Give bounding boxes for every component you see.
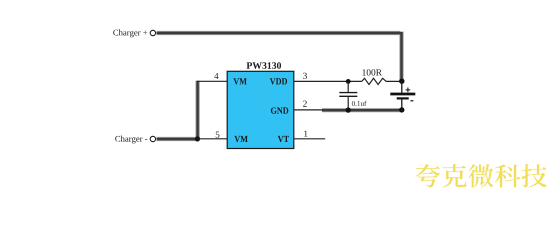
- wire pin2 GND: [294, 109, 348, 111]
- pin label VT: [278, 136, 289, 142]
- terminal Charger-: [150, 136, 155, 141]
- value label 0.1uf: [352, 101, 367, 106]
- watermark char 技: [521, 164, 547, 187]
- wire pin5: [198, 138, 228, 140]
- battery BT1 lead bottom: [401, 99, 403, 109]
- capacitor C1 plate top: [339, 92, 357, 94]
- junction VDD/cap: [346, 79, 351, 84]
- capacitor C1 plate bottom: [339, 95, 357, 97]
- watermark char 微: [468, 164, 493, 187]
- battery BT1 plate long (+): [390, 93, 415, 96]
- junction battery top: [399, 79, 404, 84]
- pin number 5: [216, 132, 220, 138]
- battery plus label: [406, 88, 411, 93]
- pin label GND: [271, 107, 288, 113]
- terminal Charger+: [150, 30, 155, 35]
- wire vertical to pin4 (thick): [196, 81, 200, 139]
- battery BT1 plate short (-): [397, 97, 409, 99]
- pin number 4: [214, 73, 218, 79]
- pin number 2: [303, 101, 307, 107]
- wire pin1 VT stub: [294, 138, 326, 140]
- watermark char 克: [442, 164, 467, 187]
- label PW3130: [247, 62, 281, 69]
- watermark char 夸: [415, 164, 440, 188]
- pin label VDD: [270, 78, 287, 84]
- junction at Charger-: [195, 136, 200, 141]
- capacitor C1 lead bottom: [347, 97, 349, 110]
- battery BT1 lead top: [401, 81, 403, 93]
- node Charger- label: [115, 136, 147, 144]
- wire pin3 VDD: [294, 80, 362, 82]
- capacitor C1 lead top: [347, 81, 349, 92]
- node Charger+ label: [113, 29, 147, 37]
- IC U1 PW3130 body: [227, 71, 294, 148]
- wire Charger- to junction (thick): [157, 137, 198, 141]
- junction battery bottom: [399, 107, 404, 112]
- watermark char 科: [495, 164, 521, 187]
- pin label VM top: [233, 78, 246, 84]
- pin number 3: [303, 73, 307, 79]
- battery minus label: [410, 100, 413, 102]
- value label 100R: [362, 69, 382, 75]
- pin number 1: [304, 131, 307, 137]
- resistor R1 zigzag: [362, 78, 400, 84]
- junction cap/GND: [346, 107, 351, 112]
- wire Charger+ to battery (thick): [157, 32, 402, 81]
- wire pin4: [197, 80, 227, 82]
- wire GND to battery (thick): [322, 108, 402, 112]
- pin label VM bottom: [234, 136, 247, 142]
